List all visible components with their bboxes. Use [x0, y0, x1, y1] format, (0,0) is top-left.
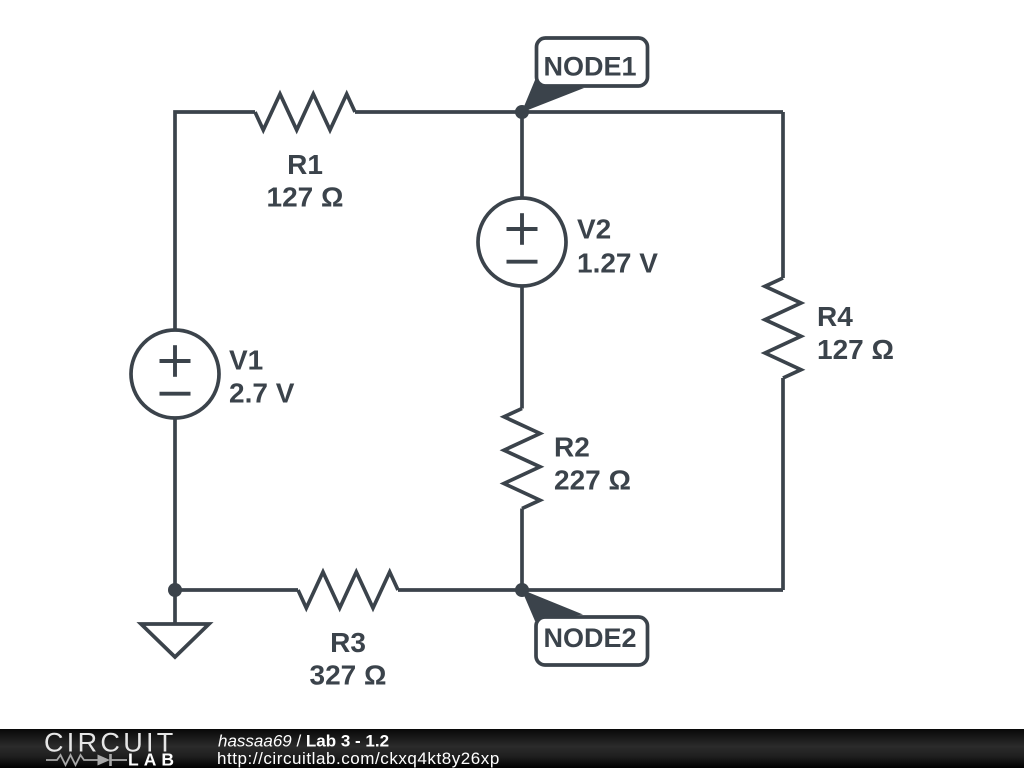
svg-text:R3: R3 — [330, 627, 366, 658]
svg-text:R1: R1 — [287, 149, 323, 180]
svg-text:V1: V1 — [229, 344, 263, 375]
svg-text:327 Ω: 327 Ω — [310, 659, 387, 690]
svg-text:227 Ω: 227 Ω — [554, 465, 631, 496]
svg-text:V2: V2 — [577, 214, 611, 245]
svg-text:hassaa69 / Lab 3 - 1.2: hassaa69 / Lab 3 - 1.2 — [218, 732, 389, 751]
svg-text:R4: R4 — [817, 301, 853, 332]
svg-text:2.7 V: 2.7 V — [229, 378, 295, 409]
svg-text:LAB: LAB — [128, 750, 179, 768]
svg-text:1.27 V: 1.27 V — [577, 247, 658, 278]
svg-text:NODE1: NODE1 — [543, 52, 636, 82]
svg-text:127 Ω: 127 Ω — [267, 181, 344, 212]
svg-text:127 Ω: 127 Ω — [817, 334, 894, 365]
svg-text:R2: R2 — [554, 432, 590, 463]
svg-text:http://circuitlab.com/ckxq4kt8: http://circuitlab.com/ckxq4kt8y26xp — [217, 749, 500, 768]
svg-text:NODE2: NODE2 — [543, 623, 636, 653]
